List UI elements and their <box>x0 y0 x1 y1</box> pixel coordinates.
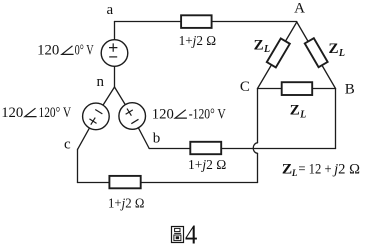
source V3 120∠-120° circle <box>119 103 146 130</box>
source V1 plus sign <box>109 43 117 51</box>
svg-text:120: 120 <box>152 106 174 122</box>
svg-text:A: A <box>294 0 305 16</box>
wire B vertical <box>335 89 337 149</box>
caption hand-drawn CJK character 圖 (figure) <box>172 227 184 243</box>
source V3 minus sign (toward b) <box>131 119 138 123</box>
crossover hop on C vertical wire <box>253 143 257 154</box>
svg-text:Z: Z <box>282 162 292 178</box>
svg-text:B: B <box>345 81 355 97</box>
svg-text:Z: Z <box>329 41 339 57</box>
svg-text:120: 120 <box>1 105 23 121</box>
svg-text:1+j2 Ω: 1+j2 Ω <box>179 34 217 49</box>
angle symbol for 120 deg <box>25 108 37 116</box>
svg-text:= 12 +: = 12 + <box>298 162 331 178</box>
svg-text:j2 Ω: j2 Ω <box>332 162 360 178</box>
svg-text:L: L <box>338 48 345 59</box>
source V2 minus sign (toward n) <box>95 109 102 113</box>
wire delta edge A-B <box>297 22 336 89</box>
load impedance ZL edge A-C <box>267 38 290 67</box>
source V2 plus sign (toward c) <box>87 115 99 127</box>
svg-text:a: a <box>107 2 114 18</box>
resistor line impedance b-phase 1+j2 <box>190 142 221 154</box>
wire left source to c corner <box>78 116 96 149</box>
wire bottom c-phase <box>78 182 258 184</box>
resistor line impedance c-phase 1+j2 <box>109 176 140 188</box>
svg-text:Z: Z <box>254 37 264 53</box>
wire b-phase horizontal <box>149 148 335 150</box>
svg-text:-120° V: -120° V <box>189 106 226 122</box>
resistor line impedance a-phase 1+j2 <box>181 15 212 28</box>
svg-text:120: 120 <box>37 43 59 59</box>
svg-text:120° V: 120° V <box>39 105 72 121</box>
wire n to left source V2 <box>96 87 115 116</box>
svg-text:b: b <box>153 131 161 147</box>
wire delta edge C-B <box>258 88 336 90</box>
source V1 minus sign <box>109 56 117 58</box>
source V3 plus sign (toward n) <box>123 106 135 118</box>
svg-text:n: n <box>97 74 105 90</box>
load impedance ZL edge A-B <box>305 38 328 67</box>
svg-text:4: 4 <box>185 220 198 247</box>
source V1 120∠0° circle <box>101 40 128 67</box>
wire right source to b corner <box>132 116 149 149</box>
angle symbol for 0 deg <box>62 46 74 55</box>
svg-text:c: c <box>64 137 71 153</box>
wire delta edge A-C <box>258 22 297 89</box>
wire vertical through source V1 from a corner to node n <box>114 22 116 88</box>
svg-text:L: L <box>299 109 306 120</box>
svg-text:1+j2 Ω: 1+j2 Ω <box>108 197 144 212</box>
source V2 120∠120° circle <box>83 103 110 130</box>
wire c vertical <box>77 149 79 182</box>
wire n to right source V3 <box>115 87 133 116</box>
svg-text:C: C <box>240 79 250 95</box>
svg-text:Z: Z <box>290 103 300 119</box>
load impedance ZL edge C-B <box>282 82 313 95</box>
wire vertical from bottom wire up to hop <box>257 153 259 182</box>
svg-text:1+j2 Ω: 1+j2 Ω <box>188 158 226 173</box>
svg-text:0° V: 0° V <box>75 43 94 59</box>
svg-text:L: L <box>263 44 270 55</box>
angle symbol for -120 deg <box>175 110 187 118</box>
wire vertical hop to node C <box>257 89 259 143</box>
svg-text:L: L <box>291 168 298 178</box>
wire top from a corner to node A <box>115 21 297 23</box>
